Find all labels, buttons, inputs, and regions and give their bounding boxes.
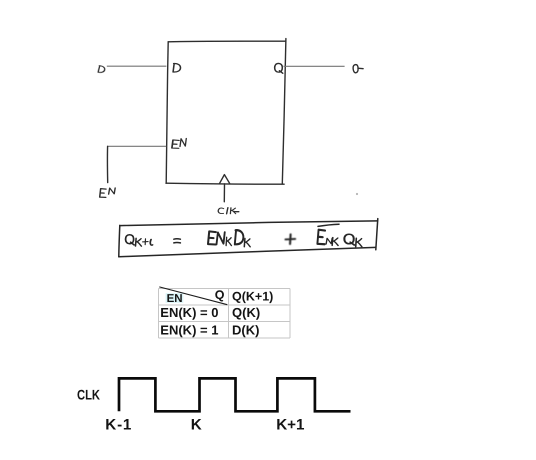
scan speck: [356, 193, 358, 195]
wire D input: [107, 65, 167, 67]
table header highlight behind EN: [166, 293, 184, 303]
pin label EN (inside box): [172, 139, 186, 149]
svg-text:CLK: CLK: [77, 387, 100, 403]
svg-text:K-1: K-1: [105, 417, 132, 434]
svg-text:EN: EN: [167, 293, 183, 305]
svg-text:Q(K): Q(K): [232, 305, 260, 320]
svg-text:Q: Q: [215, 288, 225, 302]
svg-text:K+1: K+1: [276, 417, 305, 434]
svg-text:EN(K) = 1: EN(K) = 1: [160, 322, 218, 337]
clock edge triangle: [220, 175, 230, 184]
truth table grid: [159, 289, 291, 338]
wire EN input (vertical drop): [106, 146, 108, 182]
pin label Q (inside box): [275, 63, 283, 73]
svg-text:D(K): D(K): [232, 322, 259, 337]
equation equals sign: [174, 239, 181, 243]
equation term EN_K D_K: [208, 230, 250, 247]
svg-text:EN(K) = 0: EN(K) = 0: [160, 305, 218, 320]
label ClK (handwritten clock name): [218, 208, 239, 214]
wire EN input (horizontal): [108, 145, 167, 147]
table header diagonal divider: [159, 287, 227, 305]
wire CLK stem: [223, 184, 225, 202]
equation plus sign: [286, 234, 296, 244]
pin label D (inside box): [173, 63, 180, 72]
equation term notEN_K Q_K: [317, 230, 361, 247]
clock waveform trace: [119, 378, 351, 411]
node label Q (external output, with tail): [353, 65, 363, 73]
svg-text:Q(K+1): Q(K+1): [232, 290, 273, 304]
node label EN (external input): [100, 188, 116, 198]
equation box (hand-drawn): [119, 219, 378, 257]
equation term Q(K+1): [126, 235, 153, 246]
wire Q output: [284, 65, 345, 67]
svg-text:K: K: [191, 417, 202, 434]
node label D (external input): [98, 66, 105, 73]
flip-flop U1 body: [166, 39, 286, 185]
equation overbar on EN: [318, 224, 339, 226]
